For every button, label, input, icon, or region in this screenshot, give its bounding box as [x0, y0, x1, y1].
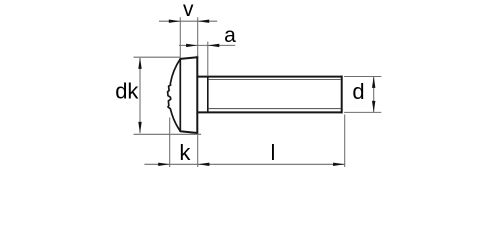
thread runout line [207, 77, 209, 113]
dk dimension line [139, 58, 141, 133]
l right extension line [344, 115, 346, 168]
k left extension line [169, 118, 171, 168]
arrowheads [138, 20, 375, 167]
d dimension line [373, 77, 375, 112]
a dimension line [179, 44, 235, 46]
svg-text:v: v [183, 0, 194, 21]
v left arrow (right) [169, 20, 181, 23]
svg-text:k: k [179, 140, 191, 165]
d top extension line [344, 76, 381, 78]
shaft top major-diameter line [197, 76, 342, 78]
shaft bottom major-diameter line [197, 111, 342, 113]
svg-text:dk: dk [115, 79, 139, 104]
d bottom arrow (down) [372, 101, 375, 113]
dk top arrow (up) [138, 57, 141, 69]
k right / l left extension line [197, 135, 199, 167]
thread minor-diameter bottom line [209, 108, 341, 110]
screw head outline: pan head, side view [180, 57, 197, 134]
screw end face [341, 76, 343, 114]
v right arrow (left) [198, 20, 210, 23]
v dimension line [159, 20, 217, 22]
svg-text:d: d [352, 79, 364, 104]
dk top extension line [134, 56, 181, 58]
dk bottom extension line [134, 133, 202, 135]
d bottom extension line [344, 111, 381, 113]
k-l common dimension line [144, 163, 345, 165]
a right extension line [207, 42, 209, 76]
v left extension line [179, 17, 181, 58]
d top arrow (up) [372, 76, 375, 88]
svg-text:l: l [271, 140, 276, 165]
thin dimension / extension lines [134, 17, 382, 167]
a right arrow (left) [208, 44, 220, 47]
svg-text:a: a [224, 24, 236, 47]
dome arc of head with recess notch [168, 59, 181, 131]
head top edge [180, 57, 197, 59]
k left arrow (right) [158, 163, 170, 166]
l right arrow (right) [333, 163, 345, 166]
head bearing face (right side of head) [196, 57, 198, 134]
thread minor-diameter top line [209, 79, 341, 81]
head bottom edge [180, 131, 197, 133]
v right / a left extension line [197, 17, 199, 56]
dk bottom arrow (down) [138, 122, 141, 133]
shaft outline (threaded shank) [197, 76, 342, 114]
k right / l left arrow (left) [198, 163, 210, 166]
sphere tangent line of dome [179, 59, 181, 131]
a left arrow (right) [186, 44, 198, 47]
